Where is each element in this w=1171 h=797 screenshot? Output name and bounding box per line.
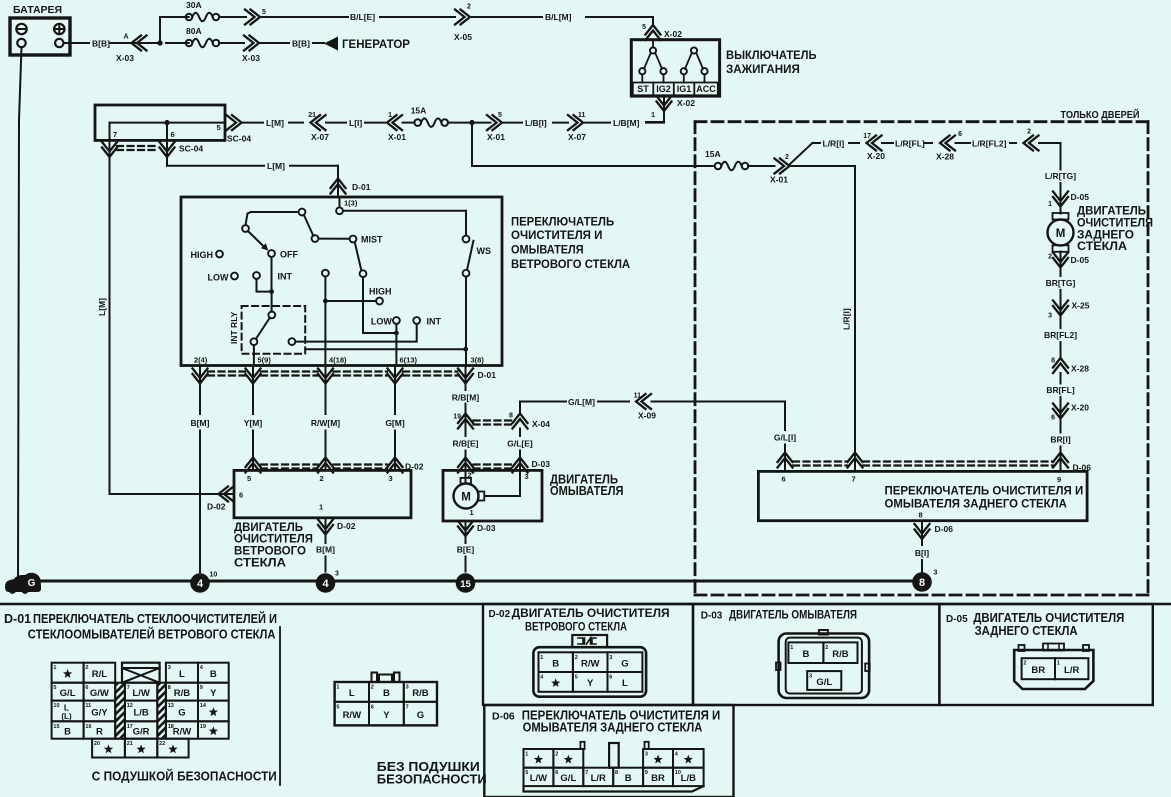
svg-text:5: 5	[217, 123, 221, 132]
svg-text:G/L[E]: G/L[E]	[507, 439, 533, 449]
svg-text:5: 5	[498, 112, 502, 119]
svg-text:(L): (L)	[61, 712, 72, 721]
svg-text:L/R[FL2]: L/R[FL2]	[972, 139, 1007, 149]
svg-text:ВЕТРОВОГО СТЕКЛА: ВЕТРОВОГО СТЕКЛА	[511, 257, 630, 271]
svg-text:L/R[I]: L/R[I]	[823, 139, 845, 149]
svg-text:2(4): 2(4)	[194, 356, 208, 365]
svg-text:20: 20	[94, 741, 100, 747]
svg-text:17: 17	[863, 133, 871, 140]
svg-text:8: 8	[919, 577, 925, 589]
svg-text:3: 3	[934, 570, 938, 577]
svg-text:СТЕКЛООМЫВАТЕЛЕЙ ВЕТРОВОГО СТЕ: СТЕКЛООМЫВАТЕЛЕЙ ВЕТРОВОГО СТЕКЛА	[28, 627, 276, 642]
svg-text:13: 13	[168, 703, 174, 709]
svg-text:L/R[FL]: L/R[FL]	[895, 139, 925, 149]
svg-text:A: A	[124, 34, 129, 41]
svg-text:2: 2	[320, 474, 324, 483]
svg-text:БАТАРЕЯ: БАТАРЕЯ	[13, 4, 62, 16]
svg-text:6: 6	[371, 704, 374, 710]
svg-text:Y: Y	[383, 710, 390, 721]
svg-text:1: 1	[53, 665, 56, 671]
svg-text:5: 5	[247, 474, 251, 483]
svg-text:3: 3	[389, 474, 393, 483]
svg-text:R/B: R/B	[174, 688, 191, 699]
svg-text:B: B	[64, 726, 71, 737]
svg-text:D-05: D-05	[1071, 192, 1090, 202]
svg-text:2: 2	[825, 645, 828, 651]
svg-text:B: B	[383, 688, 390, 699]
svg-text:2: 2	[555, 752, 558, 758]
svg-text:1: 1	[651, 112, 655, 119]
svg-text:6: 6	[609, 675, 612, 681]
svg-text:X-20: X-20	[867, 151, 885, 161]
svg-text:ST: ST	[637, 84, 649, 94]
svg-text:9: 9	[645, 770, 648, 776]
svg-text:X-25: X-25	[1072, 301, 1090, 311]
svg-text:G/L[M]: G/L[M]	[568, 397, 595, 407]
svg-text:B[I]: B[I]	[915, 548, 929, 558]
svg-text:D-02: D-02	[207, 502, 226, 512]
svg-text:X-01: X-01	[388, 132, 406, 142]
svg-text:X-02: X-02	[677, 98, 695, 108]
svg-text:BR[FL2]: BR[FL2]	[1044, 330, 1077, 340]
svg-text:3: 3	[168, 665, 171, 671]
svg-text:2: 2	[785, 154, 789, 161]
svg-text:M: M	[461, 491, 471, 503]
svg-text:B: B	[802, 649, 809, 660]
svg-text:80A: 80A	[186, 26, 202, 36]
svg-text:B[M]: B[M]	[191, 418, 210, 428]
svg-text:B: B	[625, 773, 632, 784]
svg-text:BR[I]: BR[I]	[1050, 435, 1070, 445]
svg-text:SC-04: SC-04	[179, 144, 203, 154]
svg-text:5(9): 5(9)	[258, 356, 272, 365]
svg-text:1: 1	[1057, 661, 1060, 667]
svg-text:R/B[M]: R/B[M]	[452, 393, 480, 403]
svg-text:7: 7	[852, 475, 856, 484]
svg-text:R/B[E]: R/B[E]	[453, 439, 479, 449]
svg-text:10: 10	[210, 572, 218, 579]
svg-text:5: 5	[642, 24, 646, 31]
svg-text:5: 5	[525, 770, 528, 776]
svg-text:15A: 15A	[705, 149, 721, 159]
svg-text:L/R[I]: L/R[I]	[842, 308, 852, 330]
svg-text:3: 3	[1048, 313, 1052, 320]
svg-text:ОЧИСТИТЕЛЯ И: ОЧИСТИТЕЛЯ И	[511, 228, 603, 242]
svg-text:G/R: G/R	[133, 726, 150, 737]
svg-text:ЗАДНЕГО СТЕКЛА: ЗАДНЕГО СТЕКЛА	[975, 624, 1078, 638]
svg-text:ТОЛЬКО ДВЕРЕЙ: ТОЛЬКО ДВЕРЕЙ	[1061, 108, 1140, 121]
svg-text:2: 2	[1023, 661, 1026, 667]
svg-text:5: 5	[262, 9, 266, 16]
svg-text:L/R: L/R	[591, 773, 606, 784]
svg-text:D-01: D-01	[478, 370, 497, 380]
svg-text:3: 3	[609, 655, 612, 661]
svg-text:3: 3	[335, 571, 339, 578]
svg-text:L/B: L/B	[681, 773, 696, 784]
svg-text:3: 3	[406, 685, 409, 691]
svg-text:Y: Y	[210, 688, 217, 699]
svg-text:G/L: G/L	[816, 677, 832, 688]
svg-text:IG1: IG1	[677, 84, 692, 94]
svg-text:6: 6	[555, 770, 558, 776]
svg-text:ДВИГАТЕЛЬ ОЧИСТИТЕЛЯ: ДВИГАТЕЛЬ ОЧИСТИТЕЛЯ	[512, 606, 670, 620]
svg-text:B/L[E]: B/L[E]	[350, 12, 375, 22]
svg-text:7: 7	[127, 685, 130, 691]
svg-text:ЗАЖИГАНИЯ: ЗАЖИГАНИЯ	[726, 62, 800, 76]
svg-text:L/R[TG]: L/R[TG]	[1045, 171, 1076, 181]
svg-text:12: 12	[127, 703, 133, 709]
svg-text:L/B: L/B	[133, 707, 148, 718]
svg-text:8: 8	[168, 685, 171, 691]
svg-text:X-03: X-03	[242, 53, 260, 63]
svg-text:ПЕРЕКЛЮЧАТЕЛЬ СТЕКЛООЧИСТИТЕЛЕ: ПЕРЕКЛЮЧАТЕЛЬ СТЕКЛООЧИСТИТЕЛЕЙ И	[33, 611, 277, 626]
svg-text:11: 11	[578, 112, 586, 119]
svg-text:5: 5	[575, 675, 578, 681]
svg-text:G: G	[28, 578, 36, 589]
svg-text:1: 1	[1048, 201, 1052, 208]
svg-text:G/L: G/L	[60, 688, 76, 699]
svg-text:1: 1	[470, 508, 474, 517]
svg-text:СТЕКЛА: СТЕКЛА	[1077, 239, 1127, 253]
svg-text:L[M]: L[M]	[97, 298, 107, 316]
svg-text:D-05: D-05	[1071, 255, 1090, 265]
svg-text:X-20: X-20	[1071, 403, 1089, 413]
svg-text:7: 7	[406, 704, 409, 710]
svg-text:BR: BR	[651, 773, 665, 784]
svg-text:D-02: D-02	[489, 609, 511, 620]
svg-text:3: 3	[809, 674, 812, 680]
svg-text:2: 2	[575, 655, 578, 661]
svg-text:B: B	[552, 658, 559, 669]
svg-text:1: 1	[525, 752, 528, 758]
svg-text:WS: WS	[477, 246, 492, 256]
svg-text:X-01: X-01	[487, 132, 505, 142]
svg-text:ОМЫВАТЕЛЯ: ОМЫВАТЕЛЯ	[511, 243, 584, 257]
svg-text:SC-04: SC-04	[227, 134, 251, 144]
svg-text:R: R	[96, 726, 103, 737]
svg-text:С ПОДУШКОЙ БЕЗОПАСНОСТИ: С ПОДУШКОЙ БЕЗОПАСНОСТИ	[92, 769, 277, 784]
svg-text:6: 6	[782, 475, 786, 484]
svg-text:X-02: X-02	[664, 29, 682, 39]
svg-text:R/W: R/W	[581, 658, 600, 669]
svg-text:16: 16	[85, 724, 91, 730]
svg-text:D-02: D-02	[337, 521, 356, 531]
svg-text:6: 6	[1051, 415, 1055, 422]
svg-text:15: 15	[460, 579, 471, 590]
svg-text:R/B: R/B	[832, 649, 849, 660]
svg-text:ACC: ACC	[696, 84, 716, 94]
svg-text:7: 7	[113, 130, 117, 139]
svg-text:L: L	[64, 703, 69, 713]
svg-text:ГЕНЕРАТОР: ГЕНЕРАТОР	[342, 37, 410, 51]
svg-text:СТЕКЛА: СТЕКЛА	[234, 556, 286, 570]
svg-text:X-07: X-07	[311, 132, 329, 142]
svg-text:19: 19	[200, 724, 206, 730]
svg-text:ДВИГАТЕЛЬ ОМЫВАТЕЛЯ: ДВИГАТЕЛЬ ОМЫВАТЕЛЯ	[729, 608, 857, 622]
svg-text:X-03: X-03	[116, 53, 134, 63]
svg-text:3: 3	[525, 472, 529, 481]
svg-text:9: 9	[200, 685, 203, 691]
svg-text:M: M	[1056, 228, 1066, 240]
svg-text:D-01: D-01	[4, 612, 31, 626]
svg-text:G/L: G/L	[560, 773, 576, 784]
svg-text:R/W: R/W	[343, 710, 362, 721]
svg-text:D-01: D-01	[352, 182, 371, 192]
svg-text:B[M]: B[M]	[316, 545, 335, 555]
svg-text:4: 4	[197, 578, 204, 590]
svg-text:8: 8	[615, 770, 618, 776]
svg-text:1: 1	[540, 655, 543, 661]
svg-text:1: 1	[319, 503, 323, 512]
svg-text:ВЫКЛЮЧАТЕЛЬ: ВЫКЛЮЧАТЕЛЬ	[726, 48, 817, 62]
svg-text:15A: 15A	[411, 106, 427, 116]
svg-text:B/L[M]: B/L[M]	[545, 12, 572, 22]
svg-text:B: B	[210, 669, 217, 680]
svg-text:BR: BR	[1031, 665, 1045, 676]
svg-text:R/B: R/B	[412, 688, 429, 699]
svg-text:8: 8	[919, 511, 923, 520]
svg-text:OFF: OFF	[280, 250, 298, 260]
svg-text:14: 14	[200, 703, 207, 709]
svg-text:BR[FL]: BR[FL]	[1046, 385, 1074, 395]
svg-text:G: G	[621, 658, 628, 669]
svg-text:19: 19	[453, 414, 461, 421]
svg-text:ОМЫВАТЕЛЯ: ОМЫВАТЕЛЯ	[550, 484, 624, 498]
svg-text:6(13): 6(13)	[400, 356, 418, 365]
svg-text:D-06: D-06	[1073, 463, 1092, 473]
svg-text:D-03: D-03	[532, 459, 551, 469]
svg-text:R/L: R/L	[92, 669, 108, 680]
svg-text:11: 11	[634, 393, 642, 400]
svg-text:1: 1	[388, 112, 392, 119]
svg-text:6: 6	[85, 685, 88, 691]
svg-text:G/W: G/W	[90, 688, 109, 699]
svg-text:5: 5	[53, 685, 56, 691]
svg-text:D-06: D-06	[492, 711, 515, 723]
svg-text:L/W: L/W	[530, 773, 547, 784]
svg-text:R/W: R/W	[173, 726, 192, 737]
svg-text:LOW: LOW	[208, 273, 229, 283]
svg-text:10: 10	[53, 703, 59, 709]
svg-text:4(18): 4(18)	[329, 356, 347, 365]
svg-text:B[B]: B[B]	[292, 39, 310, 49]
svg-text:D-03: D-03	[477, 523, 496, 533]
svg-text:ПЕРЕКЛЮЧАТЕЛЬ: ПЕРЕКЛЮЧАТЕЛЬ	[511, 215, 614, 229]
svg-text:8: 8	[1051, 358, 1055, 365]
svg-text:INT: INT	[427, 317, 442, 327]
svg-text:L/B[I]: L/B[I]	[525, 118, 547, 128]
svg-text:4: 4	[322, 578, 329, 590]
svg-text:6: 6	[171, 130, 175, 139]
svg-text:3(8): 3(8)	[471, 356, 485, 365]
svg-text:1: 1	[336, 685, 339, 691]
svg-text:Y: Y	[587, 678, 594, 689]
svg-text:30A: 30A	[186, 0, 202, 10]
svg-text:L/B[M]: L/B[M]	[613, 118, 640, 128]
svg-text:2: 2	[467, 4, 471, 11]
svg-text:D-05: D-05	[946, 614, 968, 625]
svg-text:B[B]: B[B]	[92, 39, 110, 49]
svg-text:6: 6	[958, 131, 962, 138]
svg-text:ОМЫВАТЕЛЯ ЗАДНЕГО СТЕКЛА: ОМЫВАТЕЛЯ ЗАДНЕГО СТЕКЛА	[885, 496, 1068, 510]
svg-text:3: 3	[645, 752, 648, 758]
svg-text:8: 8	[509, 413, 513, 420]
svg-text:2: 2	[1027, 129, 1031, 136]
svg-text:D-03: D-03	[701, 611, 723, 622]
svg-text:Y[M]: Y[M]	[244, 418, 263, 428]
svg-text:D-06: D-06	[935, 524, 954, 534]
svg-text:1(3): 1(3)	[344, 199, 358, 208]
svg-text:L: L	[349, 688, 355, 699]
svg-text:БЕЗОПАСНОСТИ: БЕЗОПАСНОСТИ	[377, 773, 487, 787]
svg-text:2: 2	[85, 665, 88, 671]
svg-text:L[M]: L[M]	[266, 118, 284, 128]
svg-text:G/L[I]: G/L[I]	[774, 433, 796, 443]
svg-text:21: 21	[308, 112, 316, 119]
svg-text:LOW: LOW	[371, 317, 392, 327]
svg-text:INT RLY: INT RLY	[229, 311, 239, 344]
svg-text:BR[TG]: BR[TG]	[1046, 278, 1076, 288]
svg-text:L/R: L/R	[1064, 665, 1079, 676]
svg-text:B[E]: B[E]	[457, 545, 475, 555]
svg-text:X-28: X-28	[1071, 364, 1089, 374]
svg-text:G/Y: G/Y	[91, 707, 108, 718]
svg-text:X-05: X-05	[454, 32, 472, 42]
svg-text:6: 6	[239, 491, 243, 500]
svg-text:L[M]: L[M]	[267, 161, 285, 171]
svg-text:IG2: IG2	[656, 84, 671, 94]
svg-text:ДВИГАТЕЛЬ ОЧИСТИТЕЛЯ: ДВИГАТЕЛЬ ОЧИСТИТЕЛЯ	[973, 611, 1124, 625]
svg-text:ВЕТРОВОГО СТЕКЛА: ВЕТРОВОГО СТЕКЛА	[525, 619, 627, 633]
svg-text:L: L	[622, 678, 628, 689]
svg-text:15: 15	[53, 724, 59, 730]
svg-text:INT: INT	[278, 272, 293, 282]
svg-text:X-09: X-09	[638, 411, 656, 421]
svg-text:X-04: X-04	[532, 419, 550, 429]
svg-text:L/W: L/W	[132, 688, 149, 699]
svg-text:MIST: MIST	[361, 235, 383, 245]
svg-text:HIGH: HIGH	[369, 287, 392, 297]
svg-text:21: 21	[127, 741, 133, 747]
svg-text:X-01: X-01	[770, 175, 788, 185]
svg-text:L[I]: L[I]	[349, 118, 362, 128]
svg-text:1: 1	[790, 645, 793, 651]
svg-text:22: 22	[159, 741, 165, 747]
svg-text:L: L	[179, 669, 185, 680]
svg-text:7: 7	[585, 770, 588, 776]
svg-text:R/W[M]: R/W[M]	[311, 418, 340, 428]
svg-text:X-28: X-28	[936, 152, 954, 162]
svg-text:ОМЫВАТЕЛЯ ЗАДНЕГО СТЕКЛА: ОМЫВАТЕЛЯ ЗАДНЕГО СТЕКЛА	[523, 721, 703, 735]
svg-text:G: G	[417, 710, 424, 721]
svg-text:X-07: X-07	[568, 132, 586, 142]
svg-text:2: 2	[1048, 254, 1052, 261]
svg-text:5: 5	[336, 704, 339, 710]
svg-text:HIGH: HIGH	[191, 250, 214, 260]
svg-text:2: 2	[371, 685, 374, 691]
svg-text:G[M]: G[M]	[385, 418, 405, 428]
svg-text:G: G	[178, 707, 185, 718]
